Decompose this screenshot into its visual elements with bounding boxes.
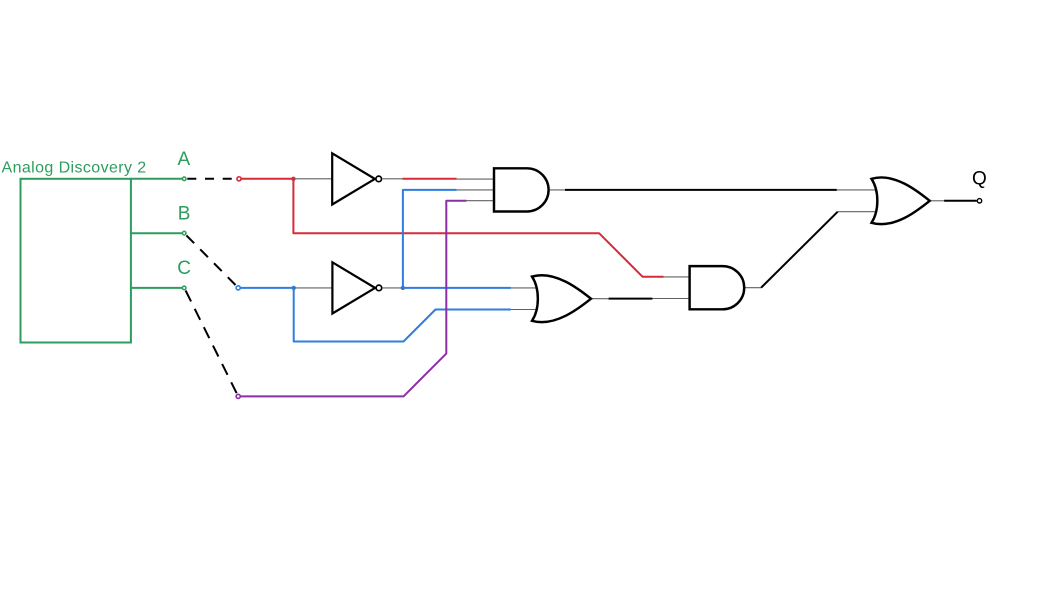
terminal C [182,286,186,290]
wire purple B to AND1 bottom input [241,201,467,397]
lead OR1 output [591,298,609,300]
svg-text:C: C [177,258,191,279]
lead inverter U1 output [383,178,403,180]
lead OR2 output [930,200,945,202]
lead OR1 input 2 [511,309,541,311]
OR gate U4 (2-input, middle) [532,275,591,322]
lead AND1 output [549,189,566,191]
wire red A to junction [241,178,293,180]
AND gate U5 (2-input, right) [690,266,745,309]
lead inverter U2 input [294,287,334,289]
terminal purple input node [236,394,240,398]
lead AND1 input 1 [457,178,496,180]
dashed jumper C to purple net [186,291,237,394]
inverter U1 (NOT gate on A) [332,153,381,204]
wire blue lower branch to OR1 bottom input [294,288,511,342]
lead AND2 input 2 [652,298,691,300]
lead OR2 input 2 [838,211,876,213]
lead OR1 input 1 [511,287,541,289]
wire red inverter output segment [403,178,457,180]
dashed jumper B to blue net [186,235,236,285]
wire B (green stub) [131,232,182,234]
wire blue C to junction [241,287,294,289]
wire blue up to AND1 middle input [403,190,457,288]
wire AND2 output diagonal to OR2 bottom input [761,212,838,288]
wire AND1 output to OR2 top input [565,189,837,191]
inverter U2 (NOT gate on C) [332,262,381,313]
wire red branch to AND2 (down, across, diagonal) [293,179,663,277]
terminal B [182,231,186,235]
terminal A [182,177,186,181]
Analog Discovery 2 box [21,179,131,343]
terminal blue input node [236,286,240,290]
lead AND2 input 1 [664,276,692,278]
svg-text:B: B [178,204,191,225]
lead AND1 input 2 [457,189,496,191]
svg-text:A: A [178,149,191,170]
wire C (green stub) [131,287,182,289]
lead AND1 input 3 [467,200,496,202]
AND gate U3 (3-input, top) [494,168,549,211]
wire blue inverter output to OR1 top input [403,287,511,289]
terminal red input node [237,177,241,181]
svg-text:Q: Q [972,169,987,190]
wire OR2 output to Q [944,200,977,202]
dashed jumper A to red net [187,178,236,180]
lead inverter U1 input [293,178,334,180]
terminal Q output [977,199,981,203]
lead OR2 input 1 [837,189,878,191]
wire OR1 output to AND2 input [609,298,653,300]
svg-text:Analog Discovery 2: Analog Discovery 2 [2,160,147,177]
lead AND2 output [744,287,761,289]
junction blue inverter output [401,286,405,290]
wire A (green stub from box to terminal A) [131,178,182,180]
junction blue C [292,286,296,290]
lead inverter U2 output [383,287,403,289]
junction red A [291,177,295,181]
OR gate U6 (2-input, output) [872,177,930,224]
